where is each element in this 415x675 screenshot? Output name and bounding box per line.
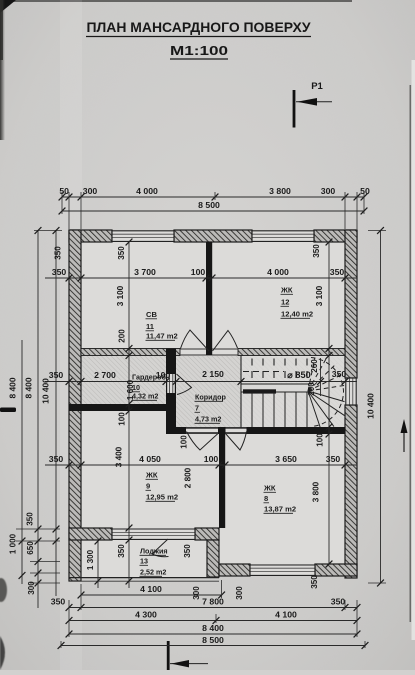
balcony door+window between room 9 and loggia: [112, 528, 195, 540]
interior wall band A (between top rooms and hall), hatched left part: [81, 349, 180, 356]
svg-text:300: 300: [235, 586, 244, 600]
dimension row R1 (y=278 inside plan): [45, 267, 357, 281]
svg-text:4 050: 4 050: [139, 454, 161, 464]
corridor floor hatch: [176, 356, 241, 427]
wardrobe floor hatch: [81, 356, 166, 404]
svg-text:300: 300: [83, 186, 98, 196]
scan artifact: top edge dark line: [0, 0, 352, 2]
extension lines top: [62, 192, 364, 229]
staircase stringer lines: [241, 383, 312, 385]
svg-text:3 100: 3 100: [116, 285, 125, 306]
svg-text:8: 8: [264, 494, 268, 503]
svg-text:12,95 m2: 12,95 m2: [146, 493, 178, 502]
door: hall to SV: [181, 330, 210, 351]
window bottom (room 8): [250, 564, 315, 576]
building interior background: [81, 242, 345, 564]
dimension row B5 (8500): [58, 635, 369, 649]
staircase lower flight treads: [252, 393, 307, 428]
door: corridor to wardrobe: [177, 374, 192, 395]
svg-text:350: 350: [331, 597, 346, 607]
dimension row B2 (350/7800/350): [51, 597, 361, 611]
svg-text:12: 12: [281, 298, 289, 307]
scan artifact: left edge dark strip: [0, 0, 5, 140]
svg-text:4 100: 4 100: [140, 584, 162, 594]
svg-text:СВ: СВ: [146, 310, 157, 319]
svg-text:8 500: 8 500: [202, 635, 224, 645]
V2 door opening: [167, 374, 175, 393]
svg-text:1 000: 1 000: [9, 533, 18, 554]
svg-text:4 000: 4 000: [267, 267, 289, 277]
svg-text:350: 350: [310, 575, 319, 589]
svg-text:Р1: Р1: [311, 81, 323, 92]
svg-text:ЖК: ЖК: [263, 484, 276, 493]
svg-text:100: 100: [191, 267, 206, 277]
svg-text:12,40 m2: 12,40 m2: [281, 310, 313, 319]
svg-text:100: 100: [118, 412, 127, 426]
scan artifact: vertical fold light band: [60, 0, 82, 670]
loggia interior column 1300: [97, 540, 99, 588]
scan artifact: bottom-left dark smudge: [0, 578, 7, 602]
svg-text:350: 350: [312, 244, 321, 258]
section marker P1 top: [293, 81, 332, 128]
svg-text:100: 100: [316, 433, 325, 447]
svg-text:4,32 m2: 4,32 m2: [132, 392, 158, 401]
window top-left (room SV): [112, 230, 174, 242]
staircase newel dark segment: [243, 389, 276, 393]
exterior wall: top (right segment): [314, 230, 357, 242]
dimension row B4 (8400): [66, 623, 361, 637]
stair small dim line 260/200: [320, 358, 322, 396]
extension lines bottom: [61, 580, 365, 648]
staircase left edge: [240, 356, 242, 428]
exterior wall: right (lower): [345, 405, 357, 578]
left columns connector ticks: [16, 231, 62, 584]
svg-text:ЖК: ЖК: [280, 286, 293, 295]
svg-text:350: 350: [117, 246, 126, 260]
right interior dimension column: [328, 242, 330, 564]
interior wall V2 (wardrobe/corridor): [166, 349, 176, 435]
svg-text:3 650: 3 650: [275, 454, 297, 464]
scan artifact: right page edge line: [410, 85, 412, 622]
svg-text:8 400: 8 400: [8, 377, 18, 398]
svg-text:Лоджия: Лоджия: [140, 547, 168, 556]
interior wall V1 (between SV and room 12): [206, 242, 212, 355]
svg-text:3 700: 3 700: [134, 267, 156, 277]
svg-text:2 700: 2 700: [94, 370, 116, 380]
svg-text:13,87 m2: 13,87 m2: [264, 505, 296, 514]
svg-text:350: 350: [330, 267, 345, 277]
svg-text:8 400: 8 400: [202, 623, 224, 633]
svg-text:350: 350: [52, 267, 67, 277]
svg-text:200: 200: [118, 329, 127, 343]
svg-text:200: 200: [307, 382, 316, 396]
exterior wall: right (upper): [345, 230, 357, 378]
band C door openings: [186, 428, 218, 433]
stair area floor: [241, 357, 345, 427]
exterior wall: bottom of room 9 (left segment): [69, 528, 112, 540]
loggia front railing: [69, 577, 219, 579]
exterior wall: top (middle segment): [174, 230, 252, 242]
svg-text:650: 650: [26, 541, 35, 555]
svg-text:8 500: 8 500: [198, 200, 220, 210]
svg-text:4 100: 4 100: [275, 610, 297, 620]
svg-text:7 800: 7 800: [202, 597, 224, 607]
svg-text:10 400: 10 400: [366, 393, 376, 419]
left outer dimension columns: [22, 230, 56, 608]
svg-text:50: 50: [360, 186, 370, 196]
svg-text:3 100: 3 100: [315, 285, 324, 306]
dimension row T1 (top, segments): [59, 186, 370, 200]
section marker bottom: [167, 641, 208, 670]
svg-text:2,52 m2: 2,52 m2: [140, 568, 166, 577]
door: hall to room 8: [226, 432, 247, 451]
svg-text:3 400: 3 400: [115, 446, 124, 467]
left interior dimension column: [128, 242, 130, 588]
door: room 9 to loggia: [152, 539, 169, 557]
dimension row T2 (top, total 8500): [59, 200, 368, 214]
exterior wall: bottom of room 8 (left segment): [219, 564, 250, 576]
svg-text:350: 350: [54, 246, 63, 260]
svg-text:⌀ 850: ⌀ 850: [287, 370, 310, 380]
svg-text:3 800: 3 800: [269, 186, 291, 196]
exterior wall: bottom of room 9 (right segment): [195, 528, 219, 540]
svg-text:260: 260: [310, 359, 319, 373]
svg-text:300: 300: [321, 186, 336, 196]
svg-text:100: 100: [180, 435, 189, 449]
window top-right (room 12): [252, 230, 314, 242]
scan artifact: left edge black dash: [0, 408, 16, 413]
svg-text:300: 300: [192, 586, 201, 600]
window right wall (stairs): [345, 378, 357, 405]
svg-text:11,47 m2: 11,47 m2: [146, 332, 178, 341]
svg-text:2 150: 2 150: [202, 369, 224, 379]
exterior wall: bottom of room 8 (right segment): [315, 564, 357, 576]
svg-text:М1:100: М1:100: [170, 43, 228, 58]
svg-text:350: 350: [26, 512, 35, 526]
svg-text:350: 350: [183, 544, 192, 558]
svg-text:4,73 m2: 4,73 m2: [195, 415, 221, 424]
door: hall to room 9: [187, 432, 219, 451]
exterior wall: top (left segment): [69, 230, 112, 242]
dimension row R3 (y=465 inside plan): [45, 454, 357, 468]
svg-text:11: 11: [146, 322, 155, 331]
exterior wall: left: [69, 230, 81, 581]
staircase winder solid treads: [308, 391, 345, 427]
svg-text:350: 350: [326, 454, 341, 464]
interior wall band C (below corridor/stairs): [176, 427, 345, 434]
interior wall V3 (between rooms 9 and 8): [219, 434, 225, 528]
svg-text:ЖК: ЖК: [145, 471, 158, 480]
svg-text:7: 7: [195, 404, 199, 413]
staircase walking line dashes: [243, 371, 284, 373]
arrow artifact right edge: [401, 419, 408, 452]
svg-text:10 400: 10 400: [41, 378, 51, 404]
staircase winder dashed arc: [311, 358, 344, 427]
svg-text:350: 350: [117, 544, 126, 558]
svg-text:9: 9: [146, 482, 150, 491]
staircase upper flight dashed treads: [252, 359, 307, 384]
svg-text:350: 350: [51, 597, 66, 607]
loggia right wall: [207, 540, 219, 577]
svg-text:8 400: 8 400: [24, 377, 34, 398]
band A door threshold lines: [180, 348, 238, 350]
svg-text:50: 50: [59, 186, 69, 196]
svg-text:4 300: 4 300: [135, 610, 157, 620]
svg-text:13: 13: [140, 557, 148, 566]
svg-text:300: 300: [27, 581, 36, 595]
dimension row B1 (4100 loggia): [78, 584, 225, 598]
right outer dimension column: [380, 230, 382, 583]
svg-text:1 300: 1 300: [86, 549, 95, 570]
svg-text:4 000: 4 000: [136, 186, 158, 196]
interior wall band A right part: [238, 349, 345, 356]
svg-text:3 800: 3 800: [312, 481, 321, 502]
door: hall to room 12: [213, 331, 238, 352]
svg-text:350: 350: [332, 369, 347, 379]
svg-text:100: 100: [204, 454, 219, 464]
svg-text:2 800: 2 800: [184, 467, 193, 488]
svg-text:Коридор: Коридор: [195, 393, 227, 402]
scan artifact: top-left black wedge: [0, 0, 16, 13]
svg-text:Гардероб: Гардероб: [132, 373, 167, 382]
interior wall band B (below wardrobe): [69, 404, 176, 411]
svg-text:ПЛАН МАНСАРДНОГО ПОВЕРХУ: ПЛАН МАНСАРДНОГО ПОВЕРХУ: [87, 19, 311, 35]
staircase winder fan dashed rays: [308, 358, 345, 392]
dimension row B3 (4300 | 4100): [66, 610, 361, 624]
dimension row R2 (y=381 inside plan): [45, 369, 357, 385]
